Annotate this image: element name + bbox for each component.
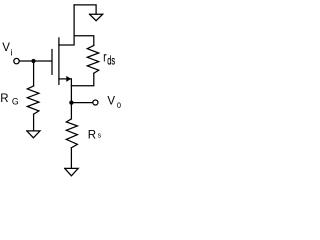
wire drain lead: channel to corner and up: [59, 5, 74, 45]
wire: source down through node S to Rs: [70, 79, 72, 119]
svg-text:V: V: [107, 95, 115, 107]
label Vi: [2, 42, 12, 58]
wire: RG to ground: [33, 114, 35, 131]
resistor rds: [87, 46, 98, 74]
svg-text:R: R: [0, 93, 8, 105]
transistor Q1 channel bar: [58, 38, 60, 85]
wire: rds bottom to source node: [71, 73, 93, 85]
wire gate: Vi terminal to gate bar: [20, 60, 52, 62]
resistor Rs: [66, 119, 77, 148]
transistor Q1 gate bar: [51, 50, 53, 75]
svg-text:s: s: [98, 132, 102, 139]
wire source lead: channel to corner: [59, 78, 71, 80]
svg-text:V: V: [2, 42, 10, 54]
ground (bottom): [65, 168, 79, 175]
svg-text:G: G: [12, 97, 19, 107]
terminal Vi (input open circle): [14, 58, 19, 63]
svg-text:o: o: [117, 99, 121, 110]
svg-text:r: r: [103, 49, 107, 65]
wire top: drain to top-right ground: [74, 5, 96, 14]
wire: node S to Vo terminal: [71, 102, 92, 104]
label Rs: [88, 130, 102, 142]
svg-text:i: i: [11, 47, 13, 57]
svg-text:R: R: [88, 130, 96, 142]
svg-text:ds: ds: [107, 55, 115, 68]
terminal Vo (output open circle): [93, 100, 98, 105]
wire: node G down to RG: [33, 61, 35, 86]
label Vo: [107, 95, 121, 110]
transistor Q1 source arrow: [66, 76, 71, 82]
ground (top right): [90, 14, 103, 21]
wire: Rs to bottom ground: [70, 148, 72, 169]
node G junction dot: [31, 59, 35, 63]
label rds: [103, 49, 115, 68]
resistor RG: [27, 86, 39, 114]
wire: drain node to rds top: [74, 36, 94, 46]
label RG: [0, 93, 19, 107]
node S junction dot: [69, 100, 73, 104]
ground (below RG): [27, 131, 40, 138]
